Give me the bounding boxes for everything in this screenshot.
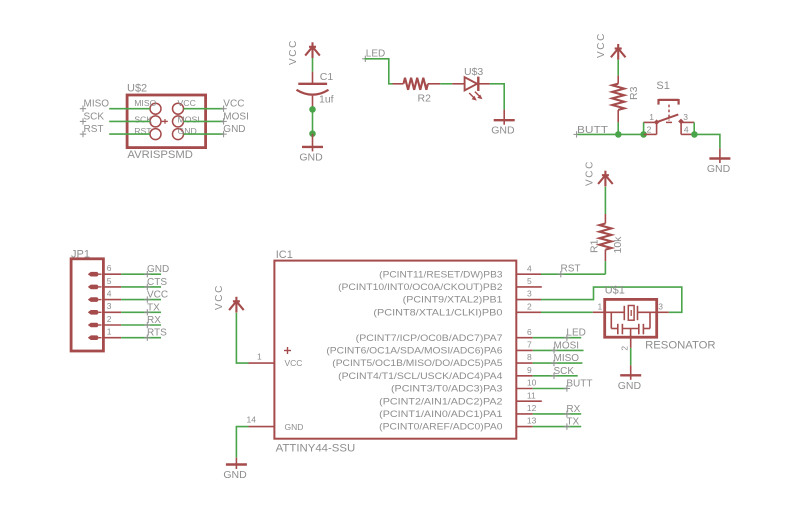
IC1 inside GND label xyxy=(285,422,304,432)
resistor R2 xyxy=(393,78,441,90)
net label SCK (IC1) xyxy=(551,366,575,379)
svg-text:(PCINT6/OC1A/SDA/MOSI/ADC6)PA6: (PCINT6/OC1A/SDA/MOSI/ADC6)PA6 xyxy=(326,346,502,356)
svg-text:R2: R2 xyxy=(418,93,432,105)
U$2 inside pin name MISO xyxy=(134,98,156,108)
net label MISO (IC1) xyxy=(551,353,579,366)
svg-text:GND: GND xyxy=(223,124,245,135)
svg-text:GND: GND xyxy=(618,380,642,392)
IC1 pin 5 stub xyxy=(516,286,542,288)
wire IC1 to net TX xyxy=(533,426,582,428)
resistor R1 xyxy=(599,214,611,261)
wire JP1 to net VCC xyxy=(121,299,161,301)
svg-text:U$2: U$2 xyxy=(127,83,147,95)
U$3 reference label xyxy=(464,66,483,78)
junction dot C1 lower xyxy=(309,130,316,137)
U$1 reference label xyxy=(605,285,625,297)
net label RST xyxy=(80,124,104,137)
svg-text:(PCINT0/AREF/ADC0)PA0: (PCINT0/AREF/ADC0)PA0 xyxy=(379,422,502,432)
svg-text:4: 4 xyxy=(107,289,112,299)
connector U$2 AVRISPSMD body xyxy=(127,95,206,148)
wire R1 to RST net xyxy=(604,261,606,274)
S1 pin number 3 xyxy=(683,112,688,122)
svg-text:VCC: VCC xyxy=(178,98,196,108)
VCC text (C1) xyxy=(288,39,299,65)
svg-text:4: 4 xyxy=(684,125,689,135)
resonator U$1 body xyxy=(605,299,657,337)
svg-text:5: 5 xyxy=(527,276,532,286)
svg-text:SCK: SCK xyxy=(84,111,105,122)
wire JP1 to net GND xyxy=(121,273,161,275)
LED U$3 xyxy=(452,77,490,101)
wire IC1 pin14 to GND xyxy=(236,427,248,458)
svg-text:CTS: CTS xyxy=(147,277,167,288)
VCC text (R3) xyxy=(596,32,607,58)
U$2 reference label xyxy=(127,83,147,95)
GND text (U$3) xyxy=(491,125,515,137)
net label TX (JP1) xyxy=(144,302,160,315)
svg-text:(PCINT8/XTAL1/CLKI)PB0: (PCINT8/XTAL1/CLKI)PB0 xyxy=(373,307,502,317)
S1 pin number 2 xyxy=(647,125,652,135)
U$2 inside pin name GND xyxy=(178,126,197,136)
svg-text:13: 13 xyxy=(527,416,537,426)
connector JP1 body xyxy=(71,259,103,351)
ground GND symbol (U$1) xyxy=(620,365,641,380)
U$2 inside pin name SCK xyxy=(134,114,152,124)
svg-text:VCC: VCC xyxy=(214,284,225,310)
svg-text:GND: GND xyxy=(299,151,323,163)
net label GND (JP1) xyxy=(144,264,169,277)
svg-text:10: 10 xyxy=(527,378,537,388)
svg-text:MOSI: MOSI xyxy=(223,111,249,122)
wire XTAL2 net (IC1 pin3 to U$1 pin3) xyxy=(541,287,682,312)
svg-text:MOSI: MOSI xyxy=(178,114,200,124)
net label GND xyxy=(220,124,245,137)
svg-text:JP1: JP1 xyxy=(71,248,90,260)
svg-text:6: 6 xyxy=(107,263,112,273)
svg-text:SCK: SCK xyxy=(554,366,575,377)
net label RX (IC1) xyxy=(564,404,581,417)
net label CTS (JP1) xyxy=(144,277,167,290)
JP1 pin stubs xyxy=(103,274,121,338)
svg-text:2: 2 xyxy=(527,301,532,311)
svg-text:MISO: MISO xyxy=(84,99,110,110)
U$1 pin 1 stub xyxy=(593,311,605,313)
svg-text:12: 12 xyxy=(527,403,537,413)
svg-text:RTS: RTS xyxy=(147,328,167,339)
svg-text:RX: RX xyxy=(147,315,161,326)
svg-text:RST: RST xyxy=(561,264,581,275)
wire RST net xyxy=(541,273,605,275)
net label VCC (JP1) xyxy=(144,290,168,303)
U$1 pin number 1 xyxy=(598,302,603,312)
JP1 pin numbers xyxy=(107,263,112,337)
svg-text:(PCINT5/OC1B/MISO/DO/ADC5)PA5: (PCINT5/OC1B/MISO/DO/ADC5)PA5 xyxy=(332,358,502,368)
capacitor C1 xyxy=(297,72,329,110)
IC1 value label ATTINY44-SSU xyxy=(276,443,356,455)
svg-text:3: 3 xyxy=(107,301,112,311)
C1 reference label xyxy=(320,71,334,83)
svg-text:(PCINT4/T1/SCL/USCK/ADC4)PA4: (PCINT4/T1/SCL/USCK/ADC4)PA4 xyxy=(338,371,503,381)
GND text (IC1) xyxy=(223,469,247,481)
U$1 pin number 3 xyxy=(658,302,663,312)
junction dot S1 pin2 xyxy=(640,131,647,138)
svg-text:VCC: VCC xyxy=(147,290,168,301)
net label MISO xyxy=(80,99,109,112)
wire C1 to GND xyxy=(312,109,314,133)
junction dot C1 upper xyxy=(309,106,316,113)
wire VCC to C1 xyxy=(312,58,314,72)
svg-text:3: 3 xyxy=(683,112,688,122)
wire VCC to R3 xyxy=(617,60,619,76)
IC1 pin 3 stub xyxy=(516,299,541,301)
supply VCC symbol (R1) xyxy=(598,171,613,187)
svg-text:MOSI: MOSI xyxy=(554,340,580,351)
wire JP1 to net TX xyxy=(121,311,161,313)
svg-text:MISO: MISO xyxy=(134,98,156,108)
wire U$2 to net GND xyxy=(184,133,224,135)
wire LED net to R2 xyxy=(365,59,393,84)
svg-text:(PCINT1/AIN0/ADC1)PA1: (PCINT1/AIN0/ADC1)PA1 xyxy=(379,409,502,419)
wire net SCK to U$2 xyxy=(109,120,150,122)
svg-text:VCC: VCC xyxy=(285,358,303,368)
svg-text:IC1: IC1 xyxy=(276,249,293,261)
net label RTS (JP1) xyxy=(144,328,167,341)
svg-text:(PCINT3/T0/ADC3)PA3: (PCINT3/T0/ADC3)PA3 xyxy=(391,384,503,394)
svg-text:MISO: MISO xyxy=(554,353,580,364)
wire IC1 to net SCK xyxy=(533,375,578,377)
wire net MISO to U$2 xyxy=(109,108,150,110)
net label BUTT (top) xyxy=(573,125,608,138)
svg-text:LED: LED xyxy=(566,328,585,339)
net label SCK xyxy=(80,111,105,124)
ground GND symbol (U$3) xyxy=(494,110,515,125)
IC1 pin 1 stub xyxy=(249,362,275,364)
svg-text:RX: RX xyxy=(566,404,580,415)
R1 reference label xyxy=(589,239,601,253)
svg-text:GND: GND xyxy=(147,264,169,275)
IC1 pins 6-13 stubs xyxy=(516,338,542,427)
svg-text:S1: S1 xyxy=(656,80,669,92)
wire net RST to U$2 xyxy=(109,133,150,135)
ground GND symbol (IC1) xyxy=(226,458,247,469)
wire IC1 to net MISO xyxy=(533,362,583,364)
svg-text:8: 8 xyxy=(527,352,532,362)
svg-text:TX: TX xyxy=(566,417,579,428)
ground GND symbol (C1) xyxy=(302,134,323,152)
ground GND symbol (S1) xyxy=(709,148,730,163)
JP1 reference label xyxy=(71,248,90,260)
U$2 pin 2 stub xyxy=(161,119,168,124)
S1 pin number 1 xyxy=(649,112,654,122)
wire IC1 to net RX xyxy=(533,413,582,415)
svg-text:10k: 10k xyxy=(612,236,624,254)
JP1 pin wedges xyxy=(88,272,102,340)
net label MOSI xyxy=(220,111,248,124)
svg-text:4: 4 xyxy=(527,263,532,273)
supply VCC symbol (R3) xyxy=(611,44,626,60)
svg-text:2: 2 xyxy=(647,125,652,135)
svg-text:1: 1 xyxy=(598,302,603,312)
svg-text:2: 2 xyxy=(620,346,630,351)
IC1 pin number 14 xyxy=(247,415,257,425)
wire IC1 to net BUTT xyxy=(533,388,568,390)
IC1 pin 2 stub xyxy=(516,311,541,313)
svg-text:BUTT: BUTT xyxy=(566,379,592,390)
svg-text:RESONATOR: RESONATOR xyxy=(645,340,716,352)
GND text (U$1) xyxy=(618,380,642,392)
svg-text:C1: C1 xyxy=(320,71,334,83)
svg-text:VCC: VCC xyxy=(584,160,595,186)
U$1 crystal internals xyxy=(605,306,657,339)
net label RX (JP1) xyxy=(144,315,161,328)
IC1 pin number 1 xyxy=(257,352,262,362)
net label LED (IC1) xyxy=(564,328,586,341)
svg-text:7: 7 xyxy=(527,340,532,350)
svg-text:1: 1 xyxy=(107,327,112,337)
wire IC1 to net MOSI xyxy=(533,349,584,351)
IC1 pin 14 stub xyxy=(249,426,275,428)
svg-text:VCC: VCC xyxy=(223,99,244,110)
U$2 inside pin name RST xyxy=(134,126,152,136)
R3 reference label xyxy=(628,86,640,100)
GND text (S1) xyxy=(707,163,731,175)
svg-text:5: 5 xyxy=(107,276,112,286)
svg-text:VCC: VCC xyxy=(288,39,299,65)
svg-text:(PCINT11/RESET/DW)PB3: (PCINT11/RESET/DW)PB3 xyxy=(379,269,502,279)
net label MOSI (IC1) xyxy=(551,340,579,353)
wire U$2 to net MOSI xyxy=(184,120,224,122)
svg-text:(PCINT10/INT0/OC0A/CKOUT)PB2: (PCINT10/INT0/OC0A/CKOUT)PB2 xyxy=(338,282,503,292)
IC1 plus mark xyxy=(284,347,291,354)
svg-text:U$3: U$3 xyxy=(464,66,483,78)
wire JP1 to net RX xyxy=(121,324,161,326)
U$2 inside pin name VCC xyxy=(178,98,196,108)
svg-text:2: 2 xyxy=(107,314,112,324)
net label TX (IC1) xyxy=(564,417,580,430)
IC1 pin 4 stub xyxy=(516,273,541,275)
junction dot R3/BUTT xyxy=(615,131,622,138)
R1 value label 10k xyxy=(612,236,624,254)
svg-text:1: 1 xyxy=(257,352,262,362)
net label LED (top) xyxy=(362,49,385,63)
supply VCC symbol (C1) xyxy=(305,42,320,58)
wire R2 to U$3 xyxy=(440,83,452,85)
svg-text:(PCINT9/XTAL2)PB1: (PCINT9/XTAL2)PB1 xyxy=(403,295,503,305)
svg-text:R1: R1 xyxy=(589,239,601,253)
wire VCC to R1 xyxy=(604,187,606,214)
svg-text:11: 11 xyxy=(527,390,536,400)
svg-text:(PCINT7/ICP/OC0B/ADC7)PA7: (PCINT7/ICP/OC0B/ADC7)PA7 xyxy=(356,333,503,343)
wire XTAL1 net (IC1 pin2 to U$1 pin1) xyxy=(541,311,593,313)
S1 reference label xyxy=(656,80,669,92)
S1 pin number 4 xyxy=(684,125,689,135)
wire IC1 to net LED xyxy=(533,337,582,339)
svg-text:R3: R3 xyxy=(628,86,640,100)
U$2 pin circles xyxy=(150,103,184,139)
U$1 value label RESONATOR xyxy=(645,340,716,352)
U$2 value label AVRISPSMD xyxy=(127,149,193,161)
svg-text:VCC: VCC xyxy=(596,32,607,58)
supply VCC symbol (IC1) xyxy=(229,297,244,313)
wire BUTT net xyxy=(578,133,644,135)
svg-text:TX: TX xyxy=(147,302,160,313)
svg-text:U$1: U$1 xyxy=(605,285,625,297)
IC1 right pin numbers xyxy=(527,263,537,425)
U$1 pin number 2 xyxy=(620,346,630,351)
svg-text:14: 14 xyxy=(247,415,257,425)
net label VCC xyxy=(220,99,244,112)
wire S1 to GND xyxy=(694,134,720,148)
GND text (C1) xyxy=(299,151,323,163)
IC1 reference label xyxy=(276,249,293,261)
U$1 pin 2 stub xyxy=(630,338,632,348)
wire JP1 to net CTS xyxy=(121,286,161,288)
U$2 inside pin name MOSI xyxy=(178,114,200,124)
svg-text:GND: GND xyxy=(491,125,515,137)
wire JP1 to net RTS xyxy=(121,337,161,339)
IC1 inside pin labels xyxy=(326,269,502,431)
svg-text:LED: LED xyxy=(366,49,385,60)
resistor R3 xyxy=(612,76,624,123)
svg-text:1: 1 xyxy=(649,112,654,122)
wire U$1 pin2 to GND xyxy=(630,348,632,365)
svg-text:9: 9 xyxy=(527,365,532,375)
wire R3 to BUTT net xyxy=(617,122,619,134)
svg-text:ATTINY44-SSU: ATTINY44-SSU xyxy=(276,443,356,455)
svg-text:RST: RST xyxy=(84,124,104,135)
svg-text:(PCINT2/AIN1/ADC2)PA2: (PCINT2/AIN1/ADC2)PA2 xyxy=(379,396,502,406)
switch S1 xyxy=(643,99,694,134)
net label BUTT (IC1) xyxy=(564,379,593,392)
svg-text:SCK: SCK xyxy=(134,114,152,124)
wire U$3 to GND xyxy=(490,84,504,110)
IC U1 body (IC1) xyxy=(274,261,516,439)
IC1 inside VCC label xyxy=(285,358,303,368)
svg-text:3: 3 xyxy=(527,289,532,299)
VCC text (IC1) xyxy=(214,284,225,310)
wire VCC to IC1 pin1 xyxy=(236,313,248,363)
svg-text:GND: GND xyxy=(223,469,247,481)
wire U$2 to net VCC xyxy=(184,108,224,110)
svg-text:GND: GND xyxy=(707,163,731,175)
svg-text:1uf: 1uf xyxy=(319,94,334,106)
svg-text:3: 3 xyxy=(658,302,663,312)
C1 value label 1uf xyxy=(319,94,334,106)
svg-text:GND: GND xyxy=(285,422,304,432)
U$1 pin 3 stub xyxy=(657,311,669,313)
R2 reference label xyxy=(418,93,432,105)
VCC text (R1) xyxy=(584,160,595,186)
junction dot S1 pin4 xyxy=(691,131,698,138)
svg-text:6: 6 xyxy=(527,327,532,337)
svg-text:AVRISPSMD: AVRISPSMD xyxy=(127,149,193,161)
net label RST xyxy=(558,264,581,278)
